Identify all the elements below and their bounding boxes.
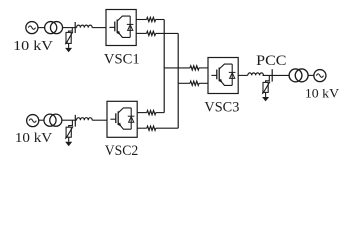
svg-text:VSC2: VSC2 — [105, 143, 139, 159]
svg-text:10 kV: 10 kV — [305, 85, 340, 100]
surge arrester SA3 + ground — [262, 75, 270, 101]
svg-text:VSC1: VSC1 — [104, 51, 140, 67]
AC source G2 — [27, 115, 39, 127]
inductor L1 — [77, 25, 93, 28]
transformer T1 — [45, 22, 63, 34]
wire — [92, 27, 106, 29]
transformer T2 — [44, 114, 62, 126]
wire — [39, 119, 44, 121]
wire — [92, 119, 107, 121]
dc bus N (right) — [177, 33, 179, 128]
AC source G3 — [314, 70, 326, 82]
wire — [63, 27, 77, 29]
surge arrester SA2 + ground — [65, 120, 73, 146]
AC source G1 — [26, 22, 38, 34]
inductor L2 — [77, 118, 93, 121]
VSC2 converter — [107, 101, 137, 137]
inductor L3 — [248, 73, 264, 76]
wire — [38, 27, 45, 29]
svg-text:PCC: PCC — [256, 53, 286, 69]
wire + resistor R5 (dc bus P to VSC3 top) — [164, 67, 190, 69]
wire + resistor R1 (VSC1 top output) — [136, 19, 146, 21]
svg-text:10 kV: 10 kV — [15, 131, 52, 146]
VSC3 converter — [208, 58, 238, 94]
VSC1 converter — [106, 10, 136, 46]
bus tick node — [74, 22, 76, 33]
dc bus P (left) — [163, 20, 165, 113]
wire — [62, 119, 77, 121]
svg-text:VSC3: VSC3 — [204, 99, 239, 115]
surge arrester SA1 + ground — [65, 28, 73, 53]
svg-text:10 kV: 10 kV — [13, 39, 53, 54]
PCC bus tick — [271, 69, 273, 81]
wire + resistor R6 (dc bus N to VSC3 bottom) — [178, 82, 190, 84]
transformer T3 — [289, 69, 308, 82]
wire + resistor R3 (VSC2 top output) — [137, 112, 147, 114]
bus tick node — [74, 115, 76, 127]
wire out of VSC3 — [238, 74, 248, 76]
wire + resistor R2 (VSC1 bottom output) — [136, 32, 146, 34]
wire — [263, 74, 289, 76]
wire — [308, 74, 314, 76]
wire + resistor R4 (VSC2 bottom output) — [137, 127, 147, 129]
